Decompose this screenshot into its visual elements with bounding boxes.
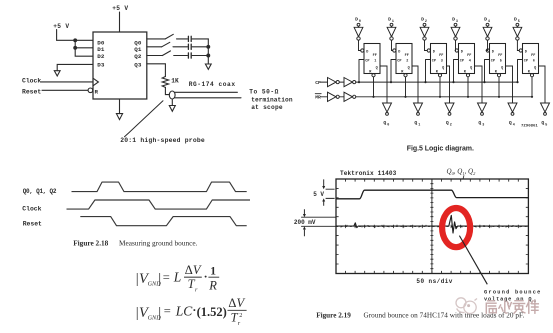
scope trace noise specks bbox=[341, 225, 520, 228]
wire coax center bottom bbox=[175, 97, 241, 99]
pin FF1 D bubble bbox=[361, 49, 364, 52]
svg-text:D: D bbox=[355, 17, 358, 23]
scope trace Q outputs 5V step bbox=[336, 190, 528, 199]
svg-text:Q1: Q1 bbox=[134, 46, 142, 53]
svg-text:CP: CP bbox=[524, 59, 528, 63]
svg-text:D2: D2 bbox=[97, 53, 105, 60]
pin Q2 terminal bbox=[448, 113, 451, 116]
node CP bus junction FF4 bbox=[452, 81, 454, 83]
pin D3 terminal bbox=[454, 23, 457, 26]
pin FF6 D bubble bbox=[519, 49, 522, 52]
svg-text:ΔV: ΔV bbox=[185, 263, 202, 277]
pin label D1 bbox=[97, 46, 105, 53]
svg-text:r: r bbox=[238, 320, 241, 327]
wire R1 to coax bbox=[165, 87, 169, 94]
svg-text:D: D bbox=[514, 17, 517, 23]
wire CP feed FF5 bbox=[485, 60, 490, 83]
label FF2 internals bbox=[397, 50, 409, 74]
wire CP between inverters bbox=[339, 81, 344, 83]
scope trace ground bounce bbox=[336, 215, 528, 233]
label FF4 internals bbox=[460, 50, 472, 74]
wire D3 terminal to inverter bbox=[455, 26, 457, 27]
svg-text:50 ns/div: 50 ns/div bbox=[416, 278, 452, 285]
buffer Q2 output bbox=[445, 103, 454, 112]
svg-text:Q: Q bbox=[408, 66, 410, 70]
svg-text:6: 6 bbox=[533, 60, 535, 64]
node load bus junction Q1 bbox=[207, 45, 210, 48]
wire D1 terminal to inverter bbox=[391, 26, 393, 27]
svg-text:Q: Q bbox=[541, 120, 544, 126]
svg-text:20:1 high-speed probe: 20:1 high-speed probe bbox=[120, 137, 205, 144]
pin Q4 terminal bbox=[511, 113, 514, 116]
svg-text:Figure 2.19: Figure 2.19 bbox=[316, 312, 351, 320]
wire CP feed FF3 bbox=[426, 60, 431, 83]
waveform Reset trace bbox=[80, 217, 246, 226]
svg-text:4: 4 bbox=[469, 60, 471, 64]
graticule ticks center horizontal bbox=[346, 225, 519, 228]
pin FF2 D bubble bbox=[393, 49, 396, 52]
label Clock bbox=[22, 78, 41, 85]
flip-flop FF1 body bbox=[364, 44, 380, 74]
wire Clock bbox=[41, 81, 93, 83]
switch blade Q2 load bbox=[162, 51, 170, 56]
wire R feed FF5 bbox=[498, 77, 500, 97]
svg-text:CP: CP bbox=[432, 59, 436, 63]
node MR bus junction FF1 bbox=[372, 96, 374, 98]
formula 1 Vgnd = L dV/Tr 1/R bbox=[136, 263, 219, 293]
node CP bus junction FF5 bbox=[483, 81, 485, 83]
inverter A4 MR second bbox=[344, 92, 356, 101]
wire D2 terminal to inverter bbox=[424, 26, 426, 27]
label Ground bounce voltage on Q3 bbox=[484, 289, 542, 303]
waveform Q0 Q1 Q2 trace bbox=[72, 182, 247, 192]
svg-text:termination: termination bbox=[251, 97, 293, 104]
svg-text:RG-174 coax: RG-174 coax bbox=[189, 81, 236, 88]
label Q4 output bbox=[509, 120, 515, 128]
label D5 input bbox=[514, 17, 520, 25]
wire U1 bottom to ground bbox=[119, 99, 121, 114]
svg-text:L: L bbox=[173, 270, 182, 285]
wire CP bus bbox=[356, 81, 518, 83]
watermark logo bbox=[456, 298, 477, 314]
label D2 input bbox=[421, 17, 427, 25]
svg-text:Q: Q bbox=[470, 66, 472, 70]
svg-text:=: = bbox=[164, 304, 171, 318]
wire D0 bbox=[57, 39, 93, 41]
pin FF5 R bubble bbox=[497, 74, 500, 77]
svg-text:MR: MR bbox=[315, 95, 321, 101]
pin label D3 bbox=[97, 61, 105, 68]
node +5V/D1 junction bbox=[74, 39, 77, 42]
svg-text:=: = bbox=[163, 270, 170, 284]
svg-text:CP: CP bbox=[315, 80, 321, 86]
flip-flop FF3 body bbox=[431, 44, 447, 74]
pin label D0 bbox=[97, 40, 105, 47]
label MR input bbox=[315, 94, 321, 101]
svg-text:FF: FF bbox=[467, 54, 471, 58]
wire D5 to FF6 bbox=[517, 40, 519, 50]
inverter A3 MR first bbox=[328, 92, 340, 101]
wire Q0 to capacitor bbox=[177, 38, 188, 40]
highlight red ellipse bbox=[442, 208, 470, 247]
pin label Q3 bbox=[134, 61, 142, 68]
scope bezel box bbox=[336, 179, 528, 274]
svg-text:7Z90861: 7Z90861 bbox=[521, 125, 538, 129]
label 5 V bbox=[313, 191, 324, 198]
node CP bus junction FF1 bbox=[358, 81, 360, 83]
node CP bus junction FF6 bbox=[516, 81, 518, 83]
pin D2 terminal bbox=[423, 23, 426, 26]
svg-text:D: D bbox=[388, 17, 391, 23]
svg-text:Q0, Q1, Q2: Q0, Q1, Q2 bbox=[23, 188, 57, 195]
svg-text:D3: D3 bbox=[97, 61, 105, 68]
wire R feed FF2 bbox=[405, 77, 407, 97]
wire Q2 to capacitor bbox=[174, 55, 188, 57]
svg-text:To 50-Ω: To 50-Ω bbox=[249, 89, 278, 96]
switch blade Q1 load bbox=[162, 42, 170, 47]
label termination bbox=[251, 97, 293, 104]
caption Fig.5 Logic diagram bbox=[407, 146, 474, 153]
pin R bubble U1 bbox=[88, 88, 93, 93]
pin Q3 terminal bbox=[481, 113, 484, 116]
wire coax shield top bbox=[175, 91, 238, 93]
svg-text:D: D bbox=[398, 50, 400, 54]
wire R feed FF6 bbox=[531, 77, 533, 97]
pin FF1 R bubble bbox=[372, 74, 375, 77]
pin FF4 R bubble bbox=[466, 74, 469, 77]
flip-flop FF4 body bbox=[459, 44, 475, 74]
capacitor C1 load bbox=[188, 36, 191, 41]
node MR bus junction FF3 bbox=[439, 96, 441, 98]
svg-text:Reset: Reset bbox=[23, 221, 42, 228]
svg-text:R: R bbox=[208, 278, 217, 292]
wire Q2 output routing bbox=[447, 66, 450, 103]
svg-text:Q: Q bbox=[376, 66, 378, 70]
wire CP feed FF6 bbox=[518, 60, 523, 83]
pin label Q1 bbox=[134, 46, 142, 53]
wire D3 to FF4 bbox=[454, 40, 456, 50]
svg-text:Q: Q bbox=[446, 120, 449, 126]
svg-text:LC: LC bbox=[175, 304, 194, 319]
coax connector ellipse bbox=[169, 91, 175, 99]
pin FF5 D bubble bbox=[486, 49, 489, 52]
graticule ticks edges bbox=[336, 179, 528, 274]
wire MR between inverters bbox=[339, 96, 344, 98]
pin FF3 D bubble bbox=[427, 49, 430, 52]
dimension 5V levels bbox=[322, 179, 334, 205]
graticule center vertical bbox=[431, 179, 433, 274]
svg-text:Fig.5 Logic diagram.: Fig.5 Logic diagram. bbox=[407, 146, 474, 153]
svg-text:Ground bounce: Ground bounce bbox=[484, 289, 542, 295]
wire Q0 capacitor to bus bbox=[192, 38, 208, 40]
svg-text:Measuring ground bounce.: Measuring ground bounce. bbox=[119, 238, 198, 247]
label Tektronix 11403 bbox=[340, 170, 397, 177]
svg-text:3: 3 bbox=[441, 60, 443, 64]
svg-text:Q2: Q2 bbox=[134, 53, 142, 60]
node MR bus junction FF4 bbox=[467, 96, 469, 98]
svg-text:Q: Q bbox=[414, 120, 417, 126]
svg-text:D: D bbox=[461, 50, 463, 54]
wire Reset bbox=[42, 89, 88, 91]
buffer Q5 output bbox=[541, 103, 550, 112]
svg-text:D: D bbox=[452, 17, 455, 23]
wire D2 feed bbox=[75, 48, 93, 56]
probe pointer line bbox=[125, 101, 164, 137]
wire Q5 output routing bbox=[539, 66, 546, 103]
flip-flop FF2 body bbox=[396, 44, 412, 74]
label Q2 output bbox=[446, 120, 452, 128]
svg-text:2: 2 bbox=[239, 312, 242, 319]
wire D1 to FF2 bbox=[392, 40, 393, 50]
wire D4 terminal to inverter bbox=[487, 26, 489, 27]
inverter A1 CP first bbox=[328, 78, 340, 87]
svg-text:CP: CP bbox=[460, 59, 464, 63]
label D0 input bbox=[355, 17, 361, 25]
pin Q0 terminal bbox=[386, 113, 389, 116]
label To 50-ohm bbox=[249, 89, 278, 96]
svg-text:ΔV: ΔV bbox=[228, 296, 245, 310]
wire D3 to ground bbox=[57, 64, 93, 70]
svg-text:D1: D1 bbox=[97, 46, 105, 53]
node MR bus junction FF2 bbox=[404, 96, 406, 98]
waveform Clock trace bbox=[67, 200, 251, 209]
svg-text:1: 1 bbox=[418, 124, 420, 128]
pin D0 terminal bbox=[357, 23, 360, 26]
svg-text:D: D bbox=[421, 17, 424, 23]
svg-text:CP: CP bbox=[397, 59, 401, 63]
svg-text:FF: FF bbox=[531, 54, 535, 58]
pin FF3 R bubble bbox=[438, 74, 441, 77]
wire R feed FF4 bbox=[467, 77, 469, 97]
wire +5V to U1 top bbox=[119, 12, 121, 32]
label FF6 internals bbox=[524, 50, 536, 74]
svg-text:CP: CP bbox=[491, 59, 495, 63]
pin Q1 terminal bbox=[417, 113, 420, 116]
label 200 mV bbox=[294, 219, 316, 226]
switch blade Q0 load bbox=[165, 34, 173, 39]
svg-text:D: D bbox=[433, 50, 435, 54]
svg-text:FF: FF bbox=[405, 54, 409, 58]
svg-text:FF: FF bbox=[498, 54, 502, 58]
label D1 input bbox=[388, 17, 394, 25]
flip-flop FF5 body bbox=[490, 44, 506, 74]
inverter A2 CP second bbox=[344, 78, 356, 87]
svg-text:Q: Q bbox=[501, 66, 503, 70]
pin D4 terminal bbox=[486, 23, 489, 26]
svg-text:3: 3 bbox=[482, 124, 484, 128]
label RG-174 coax bbox=[189, 81, 236, 88]
svg-text:Reset: Reset bbox=[22, 88, 41, 95]
label Q0 Q1 Q2 scope bbox=[447, 168, 477, 177]
flip-flop FF6 body bbox=[523, 44, 539, 74]
pin label R bbox=[95, 88, 99, 95]
label Q0 output bbox=[383, 120, 389, 128]
svg-text:at scope: at scope bbox=[251, 104, 283, 111]
svg-text:|: | bbox=[158, 305, 161, 321]
svg-text:·: · bbox=[204, 269, 208, 283]
wire D5 terminal to inverter bbox=[516, 26, 518, 27]
pointer ground bounce bbox=[459, 236, 487, 285]
svg-text:200 mV: 200 mV bbox=[294, 219, 316, 226]
svg-text:5 V: 5 V bbox=[313, 191, 324, 198]
pin FF6 R bubble bbox=[530, 74, 533, 77]
label 50 ns/div bbox=[416, 278, 452, 285]
label at scope bbox=[251, 104, 283, 111]
svg-text:Q: Q bbox=[442, 66, 444, 70]
wire CP feed FF1 bbox=[359, 60, 364, 83]
svg-text:+5 V: +5 V bbox=[112, 5, 128, 12]
svg-text:R: R bbox=[95, 88, 99, 95]
inverter D3 input bbox=[451, 27, 460, 40]
leader Q label to scope bbox=[463, 175, 464, 179]
wire D2 to FF3 bbox=[425, 40, 428, 50]
svg-text:5: 5 bbox=[500, 60, 502, 64]
capacitor C2 load bbox=[188, 44, 191, 49]
svg-text:Clock: Clock bbox=[22, 78, 41, 85]
wire CP feed FF2 bbox=[391, 60, 396, 83]
svg-text:5: 5 bbox=[545, 124, 547, 128]
node CP bus junction FF2 bbox=[390, 81, 392, 83]
inverter D4 input bbox=[483, 27, 492, 40]
inverter D2 input bbox=[420, 27, 429, 40]
svg-text:1K: 1K bbox=[171, 78, 179, 85]
pin CP edge triangle U1 bbox=[93, 78, 98, 86]
pin FF4 D bubble bbox=[455, 49, 458, 52]
wire CP input bbox=[321, 81, 328, 83]
wire D4 to FF5 bbox=[486, 40, 487, 50]
svg-text:1: 1 bbox=[210, 265, 216, 277]
ground arrow U1 bbox=[116, 114, 122, 120]
wire MR bus bbox=[356, 96, 532, 98]
svg-text:0: 0 bbox=[387, 124, 389, 128]
wire coax to ground bbox=[171, 99, 173, 106]
dimension 200mV levels bbox=[301, 209, 336, 236]
pin D5 terminal bbox=[516, 23, 519, 26]
svg-text:Q: Q bbox=[534, 66, 536, 70]
svg-text:FF: FF bbox=[439, 54, 443, 58]
wire D0 terminal to inverter bbox=[358, 26, 360, 27]
label 1K bbox=[171, 78, 179, 85]
label FF1 internals bbox=[365, 50, 377, 74]
pin FF2 R bubble bbox=[404, 74, 407, 77]
wire Q2 capacitor to bus bbox=[192, 55, 208, 57]
buffer Q1 output bbox=[414, 103, 423, 112]
buffer Q0 output bbox=[383, 103, 392, 112]
svg-text:CP: CP bbox=[365, 59, 369, 63]
label waveform Q0,Q1,Q2 bbox=[23, 188, 57, 195]
svg-text:4: 4 bbox=[513, 124, 515, 128]
node load bus junction Q2 bbox=[207, 54, 210, 57]
svg-text:2: 2 bbox=[406, 60, 408, 64]
caption Figure 2.18 bbox=[73, 238, 197, 247]
svg-text:Tektronix 11403: Tektronix 11403 bbox=[340, 170, 397, 177]
pin label Q0 bbox=[134, 40, 142, 47]
pin label D2 bbox=[97, 53, 105, 60]
wire Q4 output routing bbox=[506, 66, 513, 103]
formula 2 Vgnd = LC (1.52) dV/Tr^2 bbox=[136, 296, 247, 327]
svg-text:D: D bbox=[484, 17, 487, 23]
ground arrow D3 bbox=[54, 71, 60, 76]
wire +5V left vertical bbox=[56, 30, 58, 41]
wire D1 feed bbox=[75, 40, 93, 48]
svg-text:D: D bbox=[492, 50, 494, 54]
svg-text:D: D bbox=[525, 50, 527, 54]
inverter D5 input bbox=[513, 27, 522, 40]
label +5V top bbox=[112, 5, 128, 12]
wire R feed FF1 bbox=[373, 77, 375, 97]
label D4 input bbox=[484, 17, 490, 25]
svg-text:Figure 2.18: Figure 2.18 bbox=[73, 238, 108, 247]
buffer Q4 output bbox=[508, 103, 517, 112]
svg-text:r: r bbox=[195, 286, 198, 293]
wire MR input bbox=[321, 96, 328, 98]
part number 7Z90861 bbox=[521, 125, 538, 129]
node MR bus junction FF6 bbox=[531, 96, 533, 98]
ground arrow coax bbox=[169, 106, 175, 112]
label FF3 internals bbox=[432, 50, 444, 74]
wire CP feed FF4 bbox=[454, 60, 459, 83]
svg-text:(1.52): (1.52) bbox=[197, 305, 227, 319]
svg-text:Clock: Clock bbox=[22, 206, 41, 213]
graticule ticks center vertical bbox=[430, 184, 433, 269]
watermark text qixinyingjian bbox=[486, 300, 538, 313]
wire Q1 to capacitor bbox=[173, 46, 188, 48]
label waveform Clock bbox=[22, 206, 41, 213]
label D3 input bbox=[452, 17, 458, 25]
wire Q3 output bbox=[147, 64, 166, 77]
inverter D1 input bbox=[387, 27, 396, 40]
svg-text:+5 V: +5 V bbox=[53, 23, 69, 30]
IC U1 74HC174 body bbox=[93, 32, 147, 99]
label Q5 output bbox=[541, 120, 547, 128]
ground arrow loads bbox=[205, 64, 211, 69]
label waveform Reset bbox=[23, 221, 42, 228]
svg-text:|: | bbox=[158, 271, 161, 287]
node CP bus junction FF3 bbox=[424, 81, 426, 83]
pin D1 terminal bbox=[390, 23, 393, 26]
wire D0 to FF1 bbox=[359, 40, 361, 50]
wire Q3 output routing bbox=[475, 66, 483, 103]
svg-text:1: 1 bbox=[374, 60, 376, 64]
label FF5 internals bbox=[491, 50, 503, 74]
wire Q1 output routing bbox=[412, 66, 418, 103]
label Q1 output bbox=[414, 120, 420, 128]
resistor R1 1K bbox=[162, 77, 168, 88]
svg-text:Q: Q bbox=[478, 120, 481, 126]
wire Q0 output routing bbox=[380, 66, 387, 103]
buffer Q3 output bbox=[478, 103, 487, 112]
wire Q1 output bbox=[147, 46, 162, 48]
label +5V left bbox=[53, 23, 69, 30]
svg-text:Q: Q bbox=[383, 120, 386, 126]
wire load ground bus bbox=[207, 39, 209, 64]
label 20:1 high-speed probe bbox=[120, 137, 205, 144]
capacitor C3 load bbox=[188, 53, 191, 58]
svg-text:Q: Q bbox=[509, 120, 512, 126]
wire R feed FF3 bbox=[439, 77, 441, 97]
graticule center horizontal dashed bbox=[336, 225, 528, 227]
wire Q0 output bbox=[147, 38, 166, 40]
wire Q1 capacitor to bus bbox=[192, 46, 208, 48]
svg-text:D: D bbox=[366, 50, 368, 54]
label Reset bbox=[22, 88, 41, 95]
svg-text:FF: FF bbox=[373, 54, 377, 58]
label Q3 output bbox=[478, 120, 484, 128]
svg-text:Q0, Q1, Q2: Q0, Q1, Q2 bbox=[447, 168, 477, 177]
label CP input bbox=[315, 80, 321, 86]
node D2 junction bbox=[74, 46, 77, 49]
pin label Q2 bbox=[134, 53, 142, 60]
